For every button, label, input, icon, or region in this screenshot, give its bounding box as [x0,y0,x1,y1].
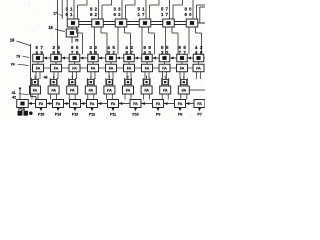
wire [98,57,106,59]
svg-text:FA: FA [182,89,187,93]
wire [66,0,68,19]
wire [198,62,200,64]
wire [192,0,194,19]
wire [157,108,159,111]
wire [71,37,73,43]
full adder FA24 [104,86,115,94]
svg-text:FA: FA [196,67,201,71]
wire [98,0,100,19]
wire [57,108,59,111]
full adder FA11 [51,64,62,72]
AND cell M39 [193,54,204,62]
net label a8 [178,45,186,55]
wire [73,0,75,19]
svg-text:FA: FA [51,89,56,93]
wire [53,71,55,79]
svg-text:FA: FA [133,102,138,106]
wire [135,67,142,69]
wire [161,78,163,86]
node label 5 [137,7,145,17]
wire [148,27,150,33]
svg-text:41: 41 [12,91,16,95]
net label a9 [195,45,203,55]
AND cell M34 [106,54,117,62]
latch cell 42 [17,100,29,108]
AND cell M11 [67,19,79,27]
wire [151,21,163,23]
wire [116,57,124,59]
wire [111,94,113,100]
wire [80,57,88,59]
full adder FA17 [159,64,170,72]
wire [105,78,107,86]
wire [72,71,74,79]
wire [31,94,33,100]
scan speckle [7,2,201,117]
wire [152,57,159,59]
full adder FA21 [48,86,59,94]
svg-text:42: 42 [12,96,16,100]
node label 5 [161,7,169,17]
net label a3 [89,45,97,55]
net label a1 [52,45,60,55]
wire [59,14,64,16]
svg-text:FA: FA [70,89,75,93]
wire [30,44,32,97]
svg-text:FA: FA [111,102,116,106]
net label a6 [143,45,151,55]
full adder FA26 [141,86,152,94]
wire [166,71,168,79]
node label 3 [65,7,73,17]
full adder FA39 [194,100,205,108]
wire [182,0,184,5]
wire [94,71,96,79]
wire [165,27,167,55]
wire [162,71,164,79]
svg-text:17: 17 [53,12,57,16]
carry cell 6 [144,80,150,85]
AND cell M30 [33,54,44,62]
carry cell 1 [51,80,57,85]
svg-text:P15: P15 [38,113,44,117]
wire [179,78,181,86]
full adder FA28 [178,86,189,94]
wire [49,78,51,86]
svg-text:FA: FA [73,102,78,106]
wire [64,103,70,105]
wire [35,71,37,79]
svg-text:FA: FA [162,67,167,71]
full adder FA23 [85,86,96,94]
wire [171,27,173,33]
svg-text:FA: FA [36,67,41,71]
wire [74,62,76,64]
full adder FA14 [106,64,117,72]
node label 3 [113,7,121,17]
wire [71,27,73,29]
wire [19,93,29,96]
wire [55,62,57,64]
svg-text:FA: FA [163,89,168,93]
svg-text:P13: P13 [72,113,78,117]
wire [186,103,195,105]
svg-text:46: 46 [44,75,48,79]
net label a2 [71,45,79,55]
node label 8 [184,7,192,17]
wire [143,94,145,100]
full adder FA32 [53,100,64,108]
wire [170,67,177,69]
wire [57,0,59,55]
wire [121,0,123,19]
wire [128,62,130,64]
wire [44,67,51,69]
AND cell M12 [92,19,104,27]
wire [112,108,114,111]
carry cell 3 [88,80,94,85]
wire [179,108,181,111]
AND cell M13 [115,19,127,27]
wire [76,27,78,33]
svg-text:FA: FA [127,67,132,71]
wire [105,94,107,100]
full adder FA18 [177,64,188,72]
full adder FA13 [88,64,99,72]
wire [148,71,150,79]
wire [141,27,143,55]
wire [17,41,31,46]
svg-text:78: 78 [75,39,79,43]
wire [56,94,58,100]
AND cell M36 [142,54,153,62]
AND cell M31 [51,54,62,62]
wire [204,57,205,59]
wire [40,108,42,111]
svg-text:FA: FA [90,102,95,106]
output P16 [18,106,33,115]
node label 8 [90,7,98,17]
wire [86,0,88,5]
svg-text:FA: FA [107,89,112,93]
wire [124,78,126,86]
svg-text:FA: FA [178,102,183,106]
full adder FA33 [70,100,81,108]
wire [183,71,185,79]
wire [31,78,33,86]
wire [80,67,88,69]
wire [110,62,112,64]
wire [164,103,175,105]
wire [81,103,87,105]
full adder FA35 [108,100,119,108]
svg-text:FA: FA [89,89,94,93]
wire [181,62,183,64]
wire [61,57,69,59]
wire [141,103,153,105]
net label a0 [35,45,43,55]
full adder FA20 [30,86,41,94]
wire [167,94,169,100]
wire [50,94,52,100]
wire [74,108,76,111]
wire [158,0,160,5]
full adder FA10 [33,64,44,72]
wire [149,94,151,100]
AND cell M15 [163,19,175,27]
wire [204,103,206,105]
wire [79,21,92,23]
wire [119,103,131,105]
wire [199,108,201,111]
wire [108,71,110,79]
wire [142,78,144,86]
wire [117,67,124,69]
net label a4 [107,45,115,55]
wire [37,94,39,100]
wire [68,94,70,100]
svg-text:FA: FA [144,89,149,93]
carry cell 2 [69,80,75,85]
wire [153,67,160,69]
full adder FA38 [175,100,186,108]
wire [37,62,39,64]
wire [94,27,96,55]
svg-text:FA: FA [145,67,150,71]
wire [198,22,205,24]
full adder FA31 [36,100,47,108]
wire [134,57,142,59]
wire [43,57,51,59]
svg-text:FA: FA [91,67,96,71]
svg-text:P8: P8 [178,113,182,117]
carry cell 0 [32,80,38,85]
full adder FA16 [142,64,153,72]
wire [124,94,126,100]
carry cell 7 [162,80,168,85]
wire [91,108,93,111]
svg-text:FA: FA [156,102,161,106]
wire [68,78,70,86]
wire [55,29,65,32]
wire [112,71,114,79]
wire [174,21,186,23]
wire [161,94,163,100]
wire [92,62,94,64]
svg-text:FA: FA [180,67,185,71]
wire [179,71,181,79]
full adder FA37 [153,100,164,108]
AND cell M16 [186,19,198,27]
wire [187,57,193,59]
wire [23,56,30,57]
svg-text:P11: P11 [110,113,116,117]
wire [126,71,128,79]
wire [130,94,132,100]
wire [188,27,190,55]
wire [205,0,207,5]
wire [98,103,108,105]
carry cell 8 [181,80,187,85]
wire [28,103,36,105]
full adder FA22 [67,86,78,94]
wire [57,71,59,79]
wire [124,27,126,33]
wire [186,94,188,100]
wire [86,78,88,86]
AND cell M32 [69,54,80,62]
full adder FA19 [193,64,204,72]
svg-text:P10: P10 [132,113,138,117]
wire [200,71,202,79]
carry cell 5 [125,80,131,85]
svg-text:FA: FA [56,102,61,106]
AND cell M38 [177,54,188,62]
full adder FA12 [69,64,80,72]
wire [195,27,197,33]
wire [188,67,194,69]
wire [164,62,166,64]
svg-text:FA: FA [54,67,59,71]
wire [130,71,132,79]
svg-text:FA: FA [109,67,114,71]
svg-text:FA: FA [39,102,44,106]
wire [170,57,177,59]
wire [189,89,205,91]
wire [18,64,29,65]
full adder FA25 [123,86,134,94]
svg-text:P16: P16 [18,106,25,111]
wire [180,94,182,100]
wire [144,71,146,79]
carry cell 4 [107,80,113,85]
net label a7 [161,45,169,55]
wire [127,21,140,23]
wire [19,87,21,100]
full adder FA27 [160,86,171,94]
AND cell M2 [66,29,78,37]
wire [169,0,171,19]
svg-text:FA: FA [126,89,131,93]
wire [87,94,89,100]
wire [100,27,102,33]
wire [196,71,198,79]
AND cell M35 [124,54,135,62]
wire [103,21,115,23]
AND cell M33 [88,54,99,62]
AND cell M37 [159,54,170,62]
wire [39,71,41,79]
wire [146,62,148,64]
full adder FA34 [87,100,98,108]
wire [61,0,63,19]
AND cell M14 [139,19,151,27]
wire [199,7,201,23]
net label a5 [125,45,133,55]
svg-text:P9: P9 [156,113,160,117]
full adder FA36 [130,100,141,108]
svg-text:P12: P12 [89,113,95,117]
wire [76,71,78,79]
wire [99,67,106,69]
svg-text:FA: FA [197,102,202,106]
svg-text:P7: P7 [197,113,201,117]
wire [47,103,53,105]
wire [93,94,95,100]
wire [62,67,70,69]
wire [135,108,137,111]
full adder FA15 [124,64,135,72]
wire [117,27,119,55]
wire [145,0,147,19]
svg-text:FA: FA [33,89,38,93]
wire [134,0,136,5]
wire [74,94,76,100]
wire [90,71,92,79]
wire [111,0,113,5]
